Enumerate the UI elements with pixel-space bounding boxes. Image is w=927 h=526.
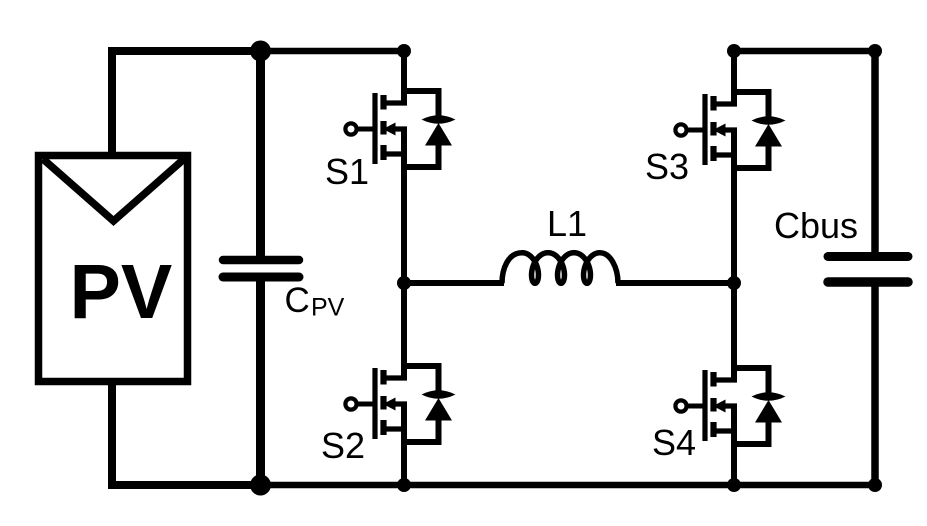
mosfet S4 channel bar drain [710,372,716,387]
body diode of S4 triangle [755,400,782,423]
mosfet S1 channel bar body [380,121,386,135]
body diode of S4 top wire [734,368,769,394]
capacitor CPV top plate [223,256,299,265]
junction node CPV bottom (big dot) [250,475,271,496]
mosfet S2 drain stub wire [383,375,407,380]
body diode of S2 bottom wire [404,418,439,442]
mosfet S3 gate lead wire [686,128,705,133]
mosfet S2 body stub wire with arrow [383,398,407,411]
wire inductor to node B [616,280,734,286]
mosfet S1 channel bar drain [380,95,386,110]
wire S3 leg from top rail to drain [731,51,737,104]
mosfet S4 gate plate [702,370,707,441]
junction node Cbus top [868,44,882,58]
mosfet S3 gate circle [675,124,686,135]
wire CPV branch upper [256,51,265,257]
mosfet S2 gate plate [372,368,377,439]
capacitor Cbus bottom plate [828,277,908,287]
wire S2 source leg to bottom rail [401,404,407,485]
svg-text:PV: PV [311,294,345,322]
wire PV loop top-left (PV top to top rail corner) [112,51,260,155]
body diode of S3 cathode bar [752,116,786,125]
mosfet S2 channel bar source [380,420,386,435]
junction node S3 drain at top rail [727,44,741,58]
junction node S2 source at bottom rail [397,478,411,492]
svg-text:S4: S4 [652,422,696,463]
mosfet S1 gate plate [372,93,377,164]
mosfet S2 channel bar body [380,396,386,410]
mosfet S3 channel bar source [710,146,716,161]
junction node Cbus bottom [868,478,882,492]
wire node A to inductor [404,280,504,286]
label CPV [285,281,345,322]
body diode of S2 triangle [425,398,452,421]
body diode of S1 triangle [425,123,452,146]
wire bottom rail (common ground rail) [257,482,875,489]
body diode of S1 top wire [404,91,439,117]
mosfet S2 gate circle [345,398,356,409]
inductor L1 coil [502,253,618,284]
mosfet S4 body stub wire with arrow [713,400,737,413]
wire PV loop bottom-left (PV bottom to bottom rail) [112,382,261,485]
wire Cbus rail upper [871,51,879,253]
mosfet S4 drain stub wire [713,377,737,382]
PV source symbol box [39,156,188,382]
wire S4 source leg to bottom rail [731,406,737,485]
mosfet S3 channel bar drain [710,96,716,111]
mosfet S1 channel bar source [380,145,386,160]
body diode of S2 cathode bar [422,390,456,399]
body diode of S1 cathode bar [422,115,456,124]
wire S1 leg from top rail to drain [401,51,407,103]
wire S1 source leg to node A [401,129,407,283]
svg-text:S1: S1 [325,151,369,192]
mosfet S1 source stub wire [383,151,407,156]
mosfet S4 source stub wire [713,428,737,433]
svg-text:C: C [285,281,310,320]
junction node B (S3-S4 midpoint) [727,276,741,290]
mosfet S2 gate lead wire [356,402,375,407]
mosfet S1 gate circle [345,123,356,134]
wire S3 source leg to node B [731,130,737,283]
mosfet S1 body stub wire with arrow [383,123,407,136]
mosfet S1 drain stub wire [383,100,407,105]
wire S2 leg from node A to drain [401,283,407,378]
body diode of S3 bottom wire [734,144,769,168]
wire top rail right section (S3 drain to Cbus) [734,48,875,55]
body diode of S3 triangle [755,124,782,147]
junction node S1 drain at top rail [397,44,411,58]
body diode of S4 cathode bar [752,392,786,401]
capacitor Cbus top plate [828,252,908,261]
junction node A (S1-S2 midpoint) [397,276,411,290]
svg-text:S2: S2 [321,425,365,466]
body diode of S4 bottom wire [734,420,769,444]
body diode of S1 bottom wire [404,143,439,167]
wire top rail left section (node CPV to S1 drain) [257,48,404,55]
body diode of S3 top wire [734,92,769,118]
mosfet S4 gate circle [675,400,686,411]
capacitor CPV bottom plate [223,273,299,282]
junction node CPV top (big dot) [250,41,271,62]
wire S4 leg from node B to drain [731,283,737,380]
wire Cbus rail lower [871,285,879,485]
svg-text:PV: PV [70,249,173,335]
mosfet S2 channel bar drain [380,370,386,385]
mosfet S4 channel bar body [710,398,716,412]
mosfet S3 gate plate [702,94,707,165]
svg-text:S3: S3 [645,146,689,187]
PV source chevron [43,159,184,221]
mosfet S3 channel bar body [710,122,716,136]
mosfet S2 source stub wire [383,426,407,431]
mosfet S3 body stub wire with arrow [713,124,737,137]
wire CPV branch lower [256,280,265,485]
mosfet S3 source stub wire [713,152,737,157]
mosfet S3 drain stub wire [713,101,737,106]
svg-text:Cbus: Cbus [774,205,858,246]
svg-text:L1: L1 [547,203,587,244]
mosfet S4 gate lead wire [686,404,705,409]
mosfet S4 channel bar source [710,422,716,437]
junction node S4 source at bottom rail [727,478,741,492]
mosfet S1 gate lead wire [356,127,375,132]
body diode of S2 top wire [404,366,439,392]
